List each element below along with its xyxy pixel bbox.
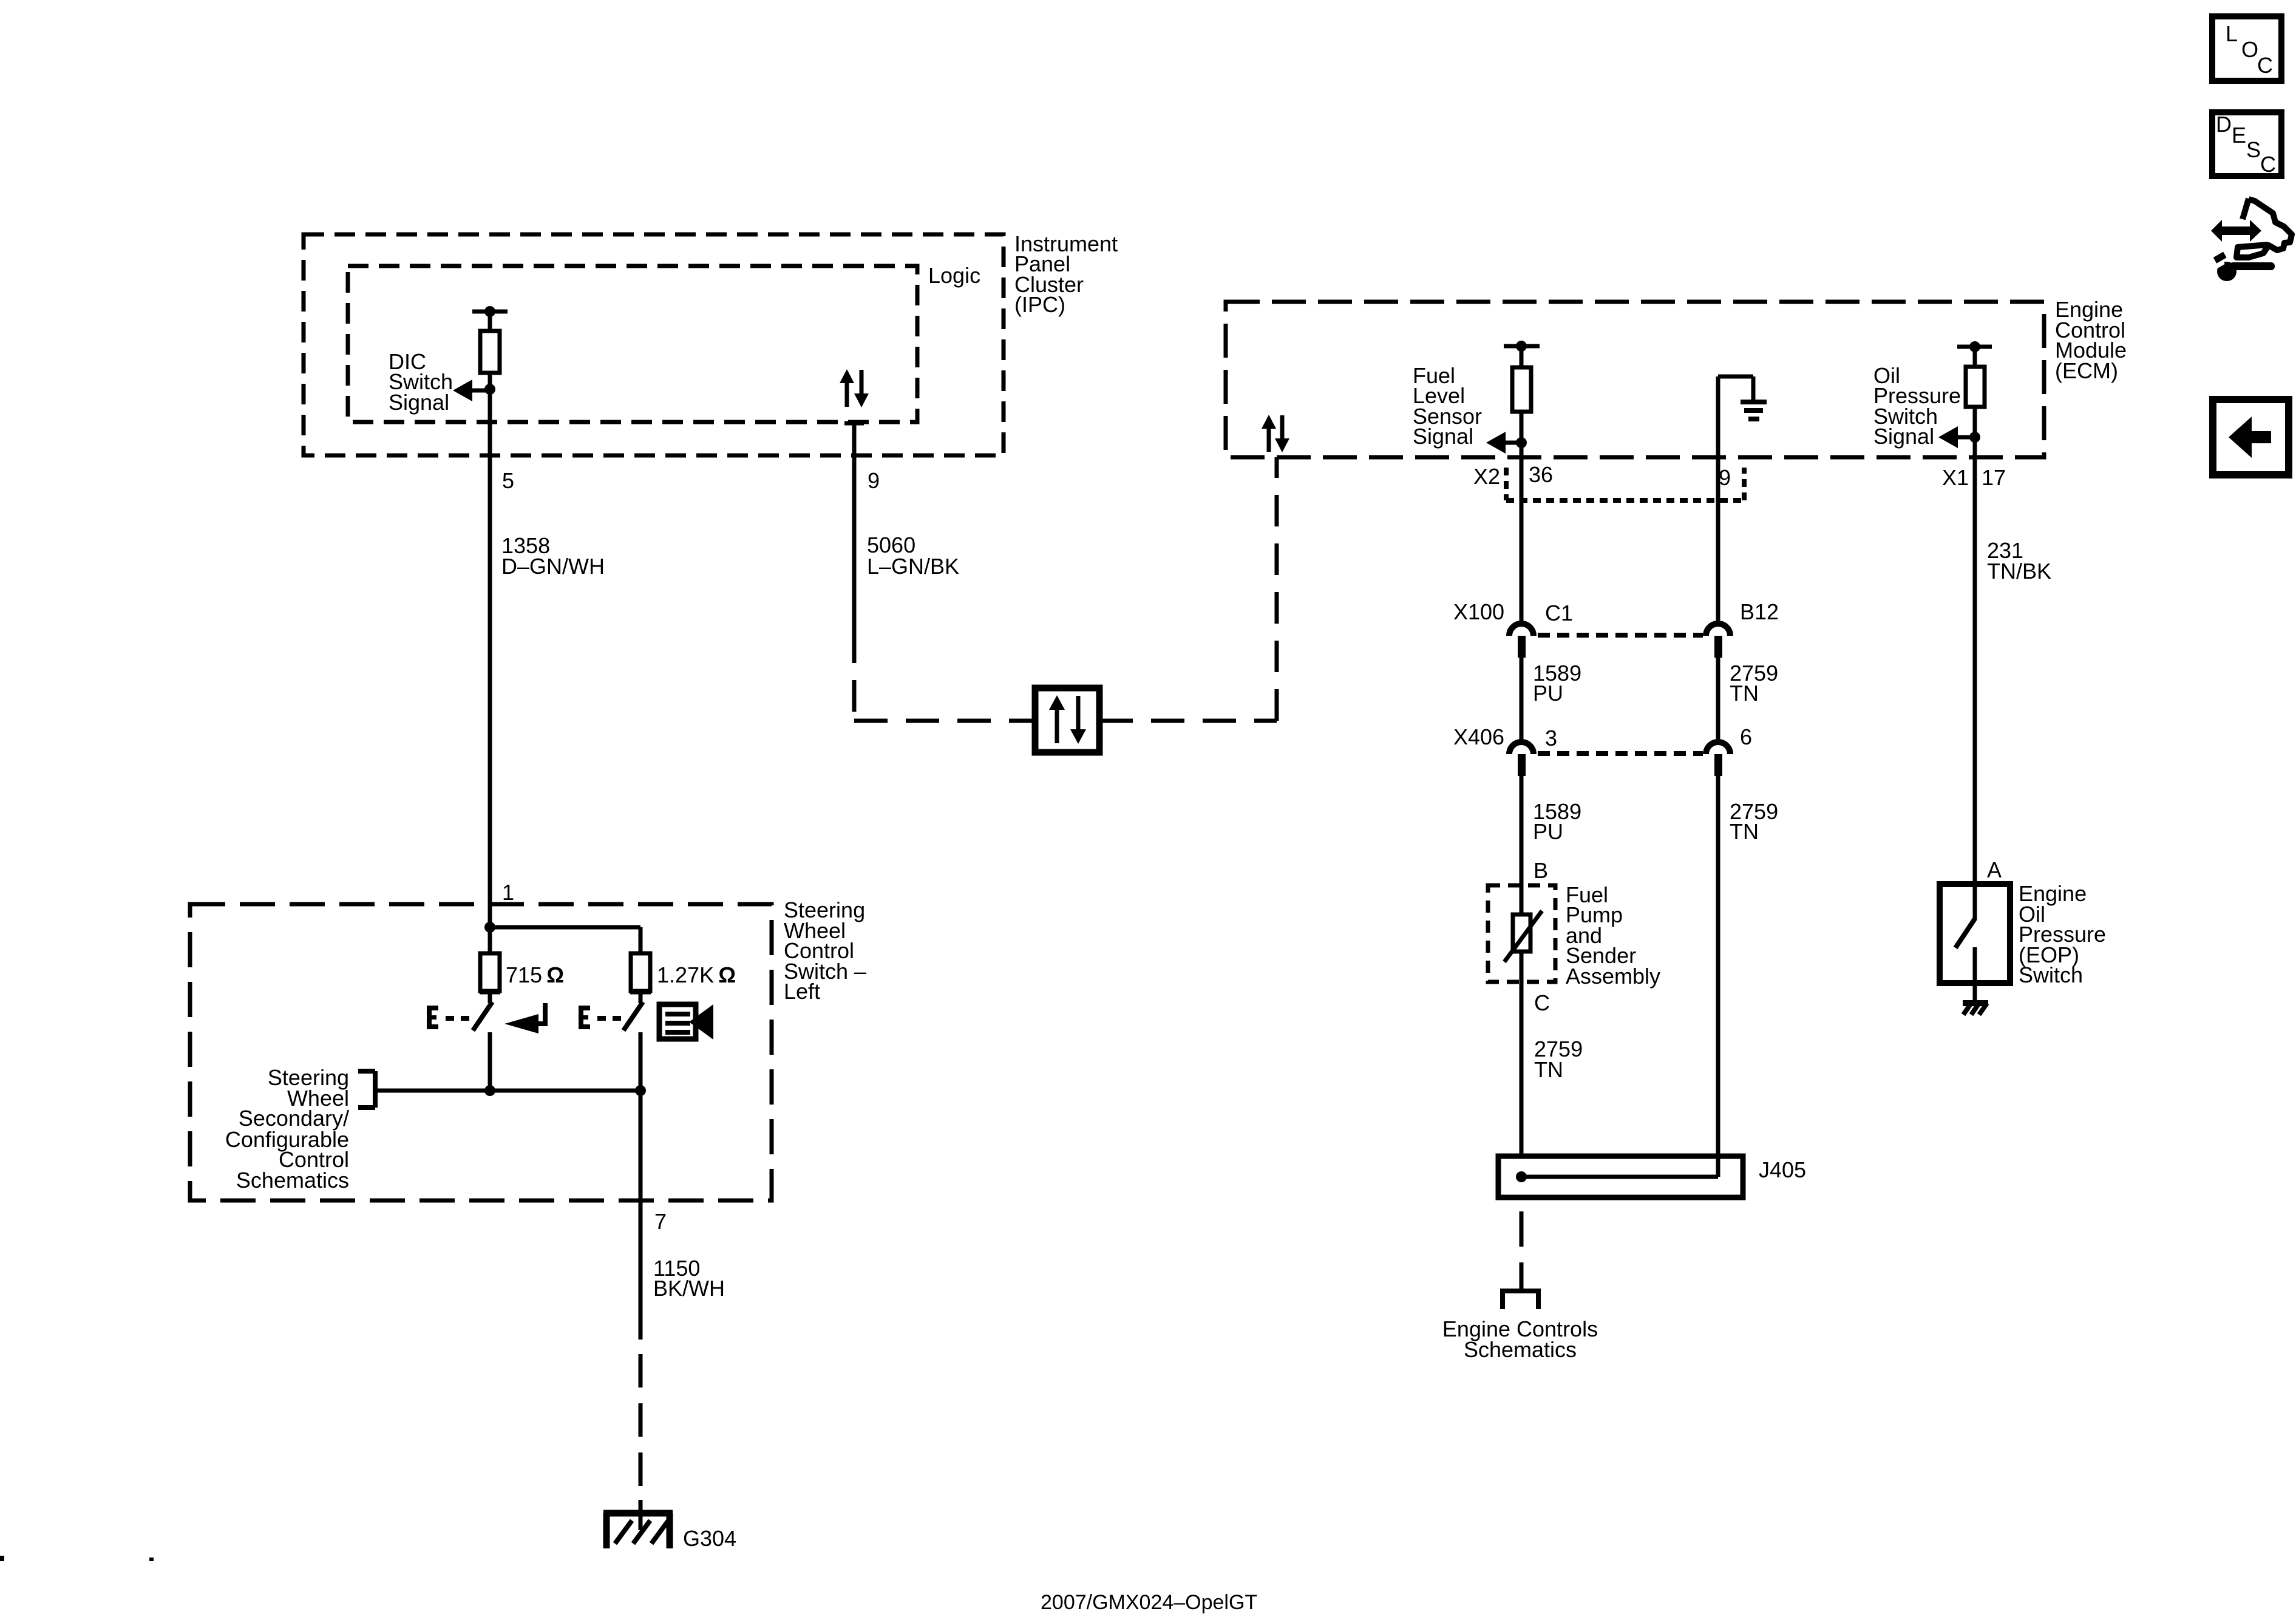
wire oil lead 231: [1973, 437, 1977, 884]
svg-text:3: 3: [1545, 726, 1557, 751]
svg-text:A: A: [1987, 857, 2002, 882]
wire 2759 long drop to J405: [1716, 776, 1720, 1177]
label Steering Wheel Secondary/Configurable Control Schematics: [225, 1065, 349, 1193]
resistor ECM fuel level pull-up: [1512, 367, 1531, 412]
svg-text:(ECM): (ECM): [2055, 358, 2118, 383]
box Engine Oil Pressure (EOP) Switch: [1940, 884, 2010, 983]
svg-text:5: 5: [502, 468, 514, 493]
svg-text:Schematics: Schematics: [1464, 1337, 1577, 1362]
svg-text:X406: X406: [1453, 724, 1504, 749]
svg-text:E: E: [2232, 123, 2246, 148]
box Steering Wheel Control Switch - Left, dashed: [190, 904, 772, 1200]
svg-text:J405: J405: [1759, 1157, 1806, 1182]
svg-text:Logic: Logic: [928, 263, 980, 288]
label DIC Switch Signal: [389, 349, 453, 415]
label wire 1150 BK/WH: [653, 1256, 725, 1301]
arrow Fuel Level Sensor Signal (points left): [1486, 432, 1506, 454]
connector X100 pin C1 (dome): [1509, 624, 1533, 658]
node junction SW1 common: [484, 1085, 495, 1096]
bracket off-page connector Steering Wheel Secondary: [358, 1071, 375, 1108]
node junction DIC signal tap: [484, 384, 495, 395]
svg-text:B12: B12: [1740, 599, 1779, 624]
wire junction to oil arrow: [1948, 435, 1975, 440]
dashes E to SW2 blade: [597, 1016, 621, 1021]
node ECM internal pin (oil pressure pull-up top): [1957, 341, 1992, 352]
scan speck left margin: [0, 1556, 4, 1561]
box Logic, dashed: [348, 266, 917, 422]
label Engine Controls Schematics: [1442, 1316, 1598, 1362]
wire dashed to ground G304: [639, 1354, 643, 1529]
wire ECM internal ground for pin 9: [1718, 376, 1753, 457]
node junction fuel level signal tap: [1516, 437, 1527, 448]
svg-text:TN/BK: TN/BK: [1987, 559, 2051, 584]
wire 5060 dashed horizontal to serial data box: [854, 719, 1035, 723]
icon hand with double arrow and wrench: [2209, 199, 2292, 281]
svg-text:2007/GMX024–OpelGT: 2007/GMX024–OpelGT: [1041, 1591, 1257, 1614]
resistor IPC DIC pull-up: [480, 331, 500, 373]
svg-text:(IPC): (IPC): [1014, 292, 1065, 317]
wire stub into G304: [639, 1500, 643, 1530]
svg-text:L–GN/BK: L–GN/BK: [867, 554, 959, 579]
ground chassis symbol below EOP: [1963, 1003, 1988, 1015]
svg-text:1.27K Ω: 1.27K Ω: [657, 962, 736, 987]
wire resistor to junction: [1520, 412, 1524, 443]
icon back arrow box: [2213, 400, 2289, 475]
svg-text:O: O: [2241, 37, 2258, 62]
label wire 1589 PU upper: [1533, 661, 1581, 706]
wire junction to DIC arrow: [463, 389, 490, 393]
connector X406 pin 3 (dome): [1509, 742, 1533, 776]
icon return/enter arrow for SW1: [504, 1003, 545, 1033]
label wire 2759 TN upper: [1730, 661, 1778, 706]
svg-text:PU: PU: [1533, 681, 1563, 706]
label Engine Control Module (ECM): [2055, 297, 2127, 383]
symbol E multiplex label for SW2: [579, 1006, 590, 1029]
arrow DIC Switch Signal (points left): [453, 380, 472, 401]
ground symbol inside ECM: [1741, 402, 1767, 419]
svg-text:36: 36: [1529, 462, 1553, 487]
label Instrument Panel Cluster (IPC): [1014, 231, 1118, 317]
svg-text:Left: Left: [784, 979, 820, 1004]
splice pack J405: [1498, 1156, 1743, 1197]
connector X2 dotted outline: [1506, 468, 1744, 500]
svg-text:TN: TN: [1534, 1057, 1563, 1082]
svg-text:1: 1: [502, 880, 514, 905]
svg-text:G304: G304: [683, 1526, 736, 1551]
label wire 2759 TN mid: [1730, 799, 1778, 844]
scan speck near bottom left: [149, 1558, 154, 1561]
node junction at switch feed: [484, 922, 495, 933]
wire tick at Logic box edge pin 9: [844, 421, 864, 426]
symbol serial data link box with up/down arrows: [1035, 688, 1099, 752]
svg-text:Signal: Signal: [1873, 424, 1934, 449]
icon DESC box: [2212, 112, 2281, 177]
svg-text:6: 6: [1740, 724, 1752, 749]
switch SW2 blade and contacts: [623, 991, 651, 1091]
label wire 231 TN/BK: [1987, 538, 2051, 584]
box Instrument Panel Cluster (IPC), dashed: [304, 234, 1004, 455]
wire dashed horizontal from serial box to ECM drop: [1099, 719, 1277, 723]
symbol E multiplex label for SW1: [427, 1006, 438, 1029]
label wire 2759 TN lower: [1534, 1037, 1583, 1082]
svg-text:L: L: [2226, 21, 2238, 46]
svg-text:D: D: [2216, 112, 2232, 137]
switch SW1 blade and contacts: [473, 991, 500, 1091]
arrow Oil Pressure Switch Signal (points left): [1938, 426, 1958, 448]
svg-text:TN: TN: [1730, 681, 1759, 706]
label Steering Wheel Control Switch - Left: [784, 897, 866, 1004]
wire stub to fuel pull-up resistor: [1520, 346, 1524, 367]
svg-text:7: 7: [654, 1209, 667, 1234]
svg-text:Signal: Signal: [1413, 424, 1473, 449]
svg-text:X2: X2: [1473, 464, 1500, 489]
resistor ECM oil pressure pull-up: [1966, 367, 1985, 407]
wire common to pin 7 (1150) solid: [639, 1091, 643, 1340]
box Fuel Pump and Sender Assembly, dashed: [1488, 885, 1555, 982]
svg-text:C1: C1: [1545, 601, 1573, 625]
dashes E to SW1 blade: [446, 1016, 469, 1021]
svg-text:Assembly: Assembly: [1566, 964, 1660, 989]
box Engine Control Module (ECM), dashed: [1226, 302, 2044, 457]
node junction SW2 common: [635, 1085, 646, 1096]
wire sender to pin C: [1520, 952, 1524, 1156]
variable resistor fuel level sender: [1504, 911, 1542, 962]
svg-text:715 Ω: 715 Ω: [506, 962, 564, 987]
connector X100 dotted interface line: [1538, 633, 1703, 638]
svg-text:C: C: [2260, 152, 2276, 177]
wire stub to oil pull-up resistor: [1973, 347, 1977, 367]
label wire 1589 PU mid: [1533, 799, 1581, 844]
wire junction to fuel arrow: [1496, 441, 1521, 445]
wire ground lead 2759 upper: [1716, 457, 1720, 623]
svg-text:BK/WH: BK/WH: [653, 1276, 725, 1301]
connector X100 pin B12 (dome): [1706, 624, 1730, 658]
wire junction to 715 resistor: [488, 927, 492, 953]
wire 1589 between X100 and X406: [1520, 658, 1524, 741]
wire resistor to junction: [1973, 407, 1977, 437]
wire dashed vertical up into ECM: [1275, 457, 1279, 721]
ground G304 symbol: [603, 1513, 673, 1548]
label Fuel Level Sensor Signal: [1413, 363, 1482, 449]
label Engine Oil Pressure (EOP) Switch: [2019, 881, 2106, 987]
wire IPC pin 5 lead (1358): [488, 389, 492, 927]
resistor 715 ohm: [480, 953, 500, 991]
off-page connector bracket to Engine Controls Schematics: [1503, 1289, 1538, 1309]
wire dashed below J405: [1520, 1211, 1524, 1289]
svg-text:B: B: [1533, 858, 1548, 883]
wire bracket to switch commons: [375, 1089, 640, 1093]
wire 5060 dashed vertical segment: [852, 632, 857, 721]
svg-text:Switch: Switch: [2019, 962, 2083, 987]
connector X406 dotted interface line: [1538, 751, 1703, 756]
label wire 1358 D-GN/WH: [501, 533, 605, 579]
svg-text:X1: X1: [1942, 465, 1969, 490]
symbol serial data up/down arrows at IPC pin 9: [840, 369, 869, 407]
icon LOC box: [2212, 16, 2281, 81]
icon menu/list with speaker for SW2: [659, 1004, 713, 1040]
node ECM internal pin (fuel level pull-up top): [1504, 341, 1540, 352]
svg-text:S: S: [2246, 137, 2261, 162]
resistor 1.27K ohm: [631, 953, 650, 991]
svg-text:9: 9: [868, 468, 880, 493]
svg-text:C: C: [2257, 53, 2273, 78]
wire branch to second resistor: [490, 925, 640, 930]
svg-text:Schematics: Schematics: [236, 1168, 349, 1193]
wire resistor to junction: [488, 373, 492, 389]
switch EOP blade and contacts: [1955, 884, 1975, 1003]
node junction oil pressure signal tap: [1969, 432, 1980, 443]
wire IPC pin 9 lead (5060) solid part: [852, 423, 857, 632]
svg-text:C: C: [1534, 990, 1550, 1015]
node IPC internal pin (DIC pull-up top): [472, 306, 508, 317]
wire fuel level lead 1589 upper: [1520, 443, 1524, 623]
wire stub pin to resistor: [488, 312, 492, 331]
svg-text:TN: TN: [1730, 819, 1759, 844]
svg-text:PU: PU: [1533, 819, 1563, 844]
wire 2759 between X100 and X406: [1716, 658, 1720, 741]
svg-text:D–GN/WH: D–GN/WH: [501, 554, 605, 579]
svg-text:Signal: Signal: [389, 390, 449, 415]
svg-text:X100: X100: [1453, 599, 1504, 624]
symbol serial data up/down arrows inside ECM: [1262, 415, 1289, 452]
label wire 5060 L-GN/BK: [867, 533, 959, 579]
svg-text:17: 17: [1982, 465, 2006, 490]
wire 1589 to fuel pump pin B: [1520, 776, 1524, 914]
label Fuel Pump and Sender Assembly: [1566, 882, 1660, 989]
connector X406 pin 6 (dome): [1706, 742, 1730, 776]
label Oil Pressure Switch Signal: [1873, 363, 1961, 449]
svg-text:9: 9: [1719, 465, 1731, 490]
